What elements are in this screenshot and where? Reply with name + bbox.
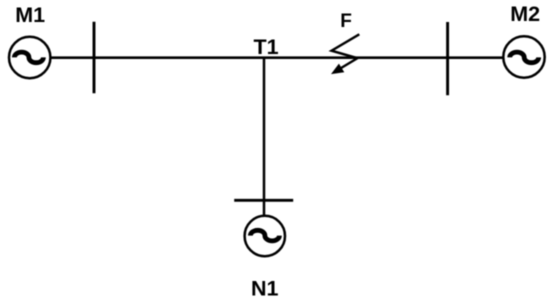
svg-text:M2: M2 <box>510 2 540 26</box>
svg-text:T1: T1 <box>254 35 279 59</box>
svg-text:N1: N1 <box>251 277 279 301</box>
svg-text:F: F <box>340 11 352 32</box>
svg-text:M1: M1 <box>15 3 45 27</box>
